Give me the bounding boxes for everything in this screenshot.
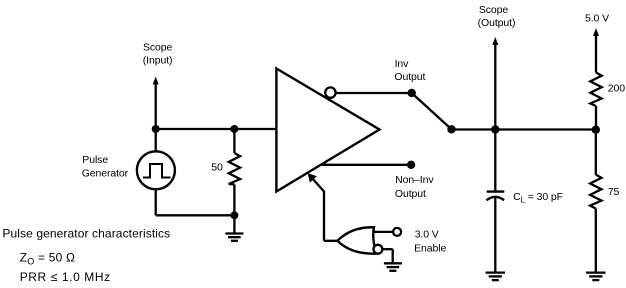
svg-text:200: 200 <box>608 83 625 95</box>
svg-text:Output: Output <box>395 188 426 200</box>
svg-text:PRR ≤ 1.0 MHz: PRR ≤ 1.0 MHz <box>20 270 111 284</box>
svg-text:3.0 V: 3.0 V <box>415 229 439 241</box>
svg-text:CL = 30 pF: CL = 30 pF <box>513 191 563 205</box>
svg-text:75: 75 <box>608 186 620 198</box>
svg-text:(Output): (Output) <box>478 17 516 29</box>
svg-text:Scope: Scope <box>479 4 509 16</box>
svg-text:Enable: Enable <box>414 242 446 254</box>
svg-text:(Input): (Input) <box>143 55 173 67</box>
svg-text:Pulse generator characteristic: Pulse generator characteristics <box>2 227 170 241</box>
svg-text:Non–Inv: Non–Inv <box>395 174 434 186</box>
svg-text:Generator: Generator <box>82 168 129 180</box>
svg-text:Output: Output <box>394 71 425 83</box>
svg-text:5.0 V: 5.0 V <box>585 12 609 24</box>
svg-text:Pulse: Pulse <box>82 154 108 166</box>
svg-text:Inv: Inv <box>395 58 410 70</box>
svg-text:50: 50 <box>211 162 223 174</box>
svg-text:Scope: Scope <box>143 41 173 53</box>
